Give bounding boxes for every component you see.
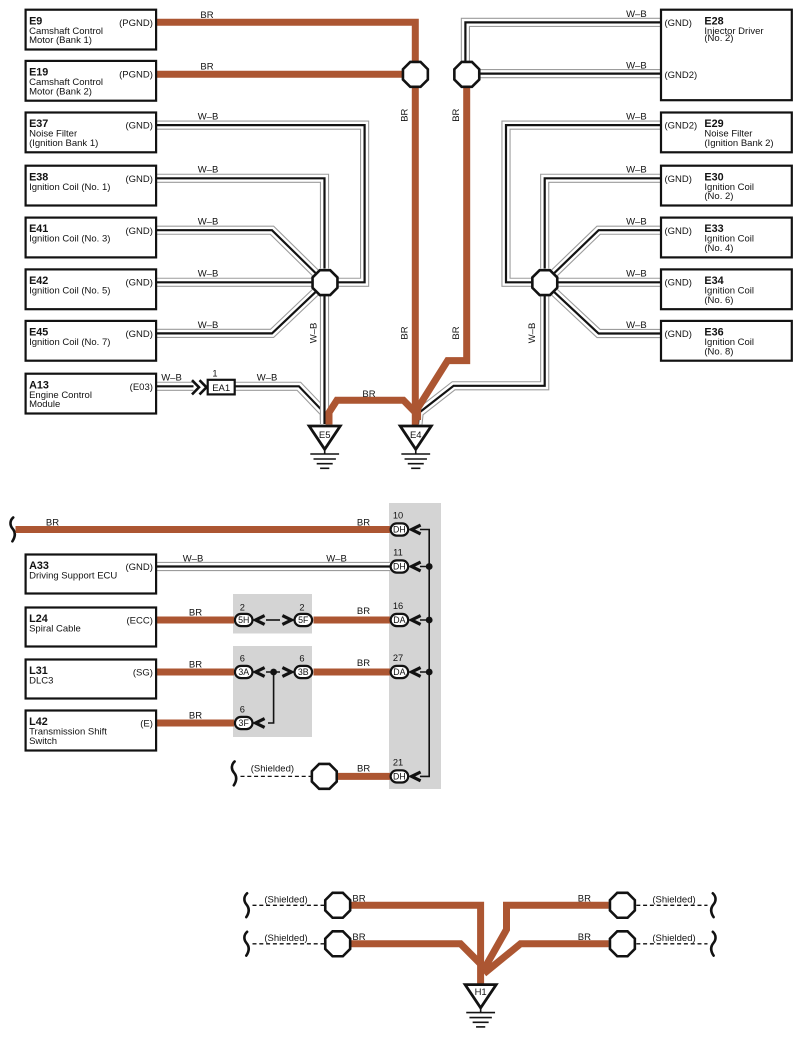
wire BR bottom bottom-left to H1 bbox=[351, 944, 481, 964]
box L24 Spiral Cable bbox=[26, 608, 157, 647]
wire E28 (GND) W-B from junction bbox=[465, 22, 661, 66]
svg-text:W–B: W–B bbox=[626, 165, 647, 176]
svg-text:BR: BR bbox=[451, 108, 462, 121]
box E28 Injector Driver (No. 2) bbox=[661, 10, 792, 101]
svg-text:3B: 3B bbox=[298, 667, 309, 677]
svg-text:(GND): (GND) bbox=[125, 121, 152, 132]
svg-text:Module: Module bbox=[29, 399, 60, 410]
svg-text:10: 10 bbox=[393, 511, 403, 521]
svg-text:BR: BR bbox=[189, 608, 202, 619]
svg-text:Ignition Coil (No. 1): Ignition Coil (No. 1) bbox=[29, 182, 110, 193]
svg-text:(GND): (GND) bbox=[125, 329, 152, 340]
wire BR row 21 bbox=[338, 773, 390, 780]
pin DH 21 bbox=[391, 770, 409, 782]
junction dot pin 16 bbox=[426, 617, 433, 624]
svg-text:DH: DH bbox=[393, 562, 406, 572]
shield squiggle bottom top-right bbox=[711, 893, 715, 917]
svg-text:W–B: W–B bbox=[326, 554, 347, 565]
svg-text:BR: BR bbox=[189, 660, 202, 671]
svg-text:(No. 8): (No. 8) bbox=[704, 346, 733, 357]
svg-text:Ignition Coil (No. 7): Ignition Coil (No. 7) bbox=[29, 337, 110, 348]
shield squiggle bottom top-left bbox=[244, 893, 248, 917]
shield squiggle bottom bottom-right bbox=[711, 932, 715, 956]
svg-text:BR: BR bbox=[352, 893, 365, 904]
ground E5 bbox=[309, 426, 340, 468]
svg-text:11: 11 bbox=[393, 548, 403, 558]
dashed shield wire bottom top-left bbox=[253, 904, 325, 906]
svg-text:E4: E4 bbox=[410, 430, 422, 441]
svg-text:DA: DA bbox=[393, 667, 405, 677]
pin 3A bbox=[235, 666, 253, 678]
svg-text:DA: DA bbox=[393, 615, 405, 625]
svg-text:(Ignition Bank 1): (Ignition Bank 1) bbox=[29, 138, 98, 149]
wire EA1 W-B to E5 bbox=[234, 386, 324, 420]
svg-text:6: 6 bbox=[240, 705, 245, 715]
dashed shield wire bottom bottom-left bbox=[253, 943, 325, 945]
wire E42 W-B to junction bbox=[156, 278, 312, 287]
svg-text:(PGND): (PGND) bbox=[119, 70, 153, 81]
wire E28 (GND2) W-B from junction bbox=[478, 69, 661, 78]
svg-text:BR: BR bbox=[578, 932, 591, 943]
svg-text:27: 27 bbox=[393, 653, 403, 663]
svg-text:DH: DH bbox=[393, 772, 406, 782]
arrow into 5F bbox=[282, 616, 291, 625]
svg-text:Ignition Coil (No. 5): Ignition Coil (No. 5) bbox=[29, 285, 110, 296]
box E33 Ignition Coil (No. 4) bbox=[661, 218, 792, 258]
svg-text:Switch: Switch bbox=[29, 736, 57, 747]
svg-text:W–B: W–B bbox=[183, 554, 204, 565]
wire E38 W-B to junction bbox=[156, 178, 325, 268]
svg-text:BR: BR bbox=[352, 932, 365, 943]
junction octagon J4 (right W-B) bbox=[532, 270, 557, 295]
junction octagon J3 (left W-B) bbox=[313, 270, 338, 295]
svg-text:BR: BR bbox=[357, 518, 370, 529]
svg-text:BR: BR bbox=[200, 10, 213, 21]
dashed shield wire bottom top-right bbox=[636, 904, 707, 906]
ground E4 bbox=[400, 426, 431, 468]
arrow pin 21 bbox=[412, 772, 421, 781]
box E45 Ignition Coil (No. 7) bbox=[26, 321, 157, 361]
dashed shield wire row 21 bbox=[241, 775, 312, 777]
arrow into 5H bbox=[256, 616, 265, 625]
box E37 Noise Filter (Ignition Bank 1) bbox=[26, 113, 157, 153]
wire E33 W-B to junction bbox=[554, 230, 661, 273]
svg-text:(GND): (GND) bbox=[665, 329, 692, 340]
svg-text:(GND): (GND) bbox=[125, 278, 152, 289]
svg-text:BR: BR bbox=[362, 389, 375, 400]
shield octagon bottom bottom-left bbox=[325, 931, 350, 956]
wire E29 W-B to junction bbox=[506, 125, 661, 282]
shield octagon bottom top-right bbox=[610, 893, 635, 918]
arrow into 3B bbox=[282, 668, 291, 677]
svg-text:(No. 4): (No. 4) bbox=[704, 243, 733, 254]
link line 5H-5F bbox=[266, 619, 280, 621]
svg-text:5F: 5F bbox=[298, 615, 309, 625]
arrow pin 16 bbox=[412, 616, 421, 625]
svg-text:3A: 3A bbox=[238, 667, 249, 677]
junction dot pin 11 bbox=[426, 563, 433, 570]
arrow into 3F bbox=[256, 719, 265, 728]
wire 3B BR to DA 27 bbox=[314, 669, 391, 676]
pin 5F bbox=[295, 614, 313, 626]
svg-text:BR: BR bbox=[357, 658, 370, 669]
wire L31 BR to 3A bbox=[156, 669, 234, 676]
wire E45 W-B to junction bbox=[156, 292, 315, 333]
svg-text:(GND): (GND) bbox=[665, 174, 692, 185]
svg-text:W–B: W–B bbox=[198, 165, 219, 176]
box E42 Ignition Coil (No. 5) bbox=[26, 269, 157, 309]
box A33 Driving Support ECU bbox=[26, 555, 157, 594]
box E36 Ignition Coil (No. 8) bbox=[661, 321, 792, 361]
svg-text:(ECC): (ECC) bbox=[127, 616, 153, 627]
svg-text:(GND): (GND) bbox=[125, 174, 152, 185]
svg-text:W–B: W–B bbox=[309, 323, 320, 344]
wire ground E5 BR link to E4 bbox=[329, 400, 416, 424]
pin 3F bbox=[235, 717, 253, 729]
box L42 Transmission Shift Switch bbox=[26, 711, 157, 751]
ground H1 bbox=[465, 985, 496, 1027]
svg-text:6: 6 bbox=[299, 654, 304, 664]
svg-text:BR: BR bbox=[578, 893, 591, 904]
svg-text:W–B: W–B bbox=[626, 112, 647, 123]
svg-text:DH: DH bbox=[393, 525, 406, 535]
wire E34 W-B to junction bbox=[558, 278, 661, 287]
svg-text:(Ignition Bank 2): (Ignition Bank 2) bbox=[704, 138, 773, 149]
svg-text:Ignition Coil (No. 3): Ignition Coil (No. 3) bbox=[29, 234, 110, 245]
shield octagon bottom top-left bbox=[325, 893, 350, 918]
svg-text:W–B: W–B bbox=[198, 217, 219, 228]
svg-text:BR: BR bbox=[357, 764, 370, 775]
svg-text:BR: BR bbox=[46, 518, 59, 529]
junction octagon J1 (BR E9/E19) bbox=[403, 62, 428, 87]
svg-text:(Shielded): (Shielded) bbox=[251, 764, 294, 775]
pin DA 16 bbox=[391, 614, 409, 626]
svg-text:Motor (Bank 2): Motor (Bank 2) bbox=[29, 86, 92, 97]
arrow into 3A bbox=[256, 668, 265, 677]
wire E41 W-B to junction bbox=[156, 230, 315, 273]
svg-text:(GND): (GND) bbox=[665, 18, 692, 29]
pin 3B bbox=[295, 666, 313, 678]
box E41 Ignition Coil (No. 3) bbox=[26, 218, 157, 258]
svg-text:1: 1 bbox=[212, 369, 217, 379]
svg-text:(GND): (GND) bbox=[665, 278, 692, 289]
svg-text:W–B: W–B bbox=[198, 320, 219, 331]
svg-text:(GND): (GND) bbox=[665, 226, 692, 237]
link line 3A-3B with branch to 3F bbox=[266, 672, 280, 723]
svg-text:(E): (E) bbox=[140, 719, 153, 730]
svg-text:6: 6 bbox=[240, 654, 245, 664]
box E9 Camshaft Control Motor (Bank 1) bbox=[26, 10, 157, 50]
arrow pin 27 bbox=[412, 668, 421, 677]
shield continuation squiggle row 21 bbox=[232, 762, 236, 786]
svg-text:Spiral Cable: Spiral Cable bbox=[29, 624, 81, 635]
svg-text:5H: 5H bbox=[238, 615, 249, 625]
connector block gray background (5H/5F) bbox=[233, 594, 312, 634]
wire junction BR to ground E4 right branch bbox=[418, 86, 467, 420]
svg-text:(SG): (SG) bbox=[133, 668, 153, 679]
wire E30 W-B to junction bbox=[545, 178, 661, 268]
svg-text:(Shielded): (Shielded) bbox=[652, 894, 695, 905]
svg-text:H1: H1 bbox=[475, 987, 487, 998]
svg-text:(Shielded): (Shielded) bbox=[264, 933, 307, 944]
box L31 DLC3 bbox=[26, 660, 157, 699]
wire E19 BR bbox=[156, 71, 404, 78]
wire main BR to ground E4 bbox=[412, 86, 419, 426]
svg-text:W–B: W–B bbox=[626, 320, 647, 331]
shield continuation squiggle row 10 bbox=[10, 518, 14, 542]
svg-text:BR: BR bbox=[189, 711, 202, 722]
svg-text:(GND2): (GND2) bbox=[665, 70, 698, 81]
svg-text:(Shielded): (Shielded) bbox=[652, 933, 695, 944]
wire A33 W-B row 11 bbox=[156, 562, 390, 571]
svg-text:E5: E5 bbox=[319, 430, 331, 441]
shield squiggle bottom bottom-left bbox=[244, 932, 248, 956]
junction dot 3A-3B link bbox=[270, 669, 277, 676]
pin DH 10 bbox=[391, 523, 409, 535]
link line pins 10-11-16-27-21 bbox=[420, 530, 429, 777]
dashed shield wire bottom bottom-right bbox=[636, 943, 707, 945]
svg-text:(No. 2): (No. 2) bbox=[704, 191, 733, 202]
box E34 Ignition Coil (No. 6) bbox=[661, 269, 792, 309]
svg-text:W–B: W–B bbox=[257, 373, 278, 384]
svg-text:(No. 6): (No. 6) bbox=[704, 295, 733, 306]
svg-text:(GND2): (GND2) bbox=[665, 121, 698, 132]
svg-text:BR: BR bbox=[400, 108, 411, 121]
wire L42 BR to 3F bbox=[156, 720, 234, 727]
svg-text:W–B: W–B bbox=[161, 373, 182, 384]
wire E36 W-B to junction bbox=[554, 292, 661, 333]
connector EA1 chevron bbox=[192, 380, 207, 394]
svg-text:W–B: W–B bbox=[626, 268, 647, 279]
box E29 Noise Filter (Ignition Bank 2) bbox=[661, 113, 792, 153]
connector EA1 box with pin 1 bbox=[208, 369, 235, 395]
pin DA 27 bbox=[391, 666, 409, 678]
wire junction to ground E4 W-B bbox=[418, 290, 545, 424]
wire A13 W-B to EA1 bbox=[156, 382, 194, 391]
svg-text:BR: BR bbox=[357, 606, 370, 617]
svg-text:W–B: W–B bbox=[626, 61, 647, 72]
svg-text:(PGND): (PGND) bbox=[119, 18, 153, 29]
svg-text:3F: 3F bbox=[239, 718, 250, 728]
connector block gray background (right tall) bbox=[389, 503, 441, 789]
wire BR bottom bottom-right to H1 bbox=[484, 944, 609, 974]
pin 5H bbox=[235, 614, 253, 626]
junction dot pin 27 bbox=[426, 669, 433, 676]
svg-text:EA1: EA1 bbox=[212, 383, 230, 394]
svg-text:16: 16 bbox=[393, 601, 403, 611]
svg-text:W–B: W–B bbox=[527, 323, 538, 344]
connector block gray background (3A/3B/3F) bbox=[233, 646, 312, 737]
wire 5F BR to DA 16 bbox=[314, 617, 391, 624]
wire E37 W-B to junction bbox=[156, 125, 365, 282]
svg-text:21: 21 bbox=[393, 758, 403, 768]
svg-text:(GND): (GND) bbox=[125, 226, 152, 237]
wire E9 BR bbox=[156, 22, 415, 64]
wire BR bottom top-right to H1 bbox=[483, 905, 609, 971]
svg-text:Driving Support ECU: Driving Support ECU bbox=[29, 571, 117, 582]
wire L24 BR to 5H bbox=[156, 617, 234, 624]
wire BR row 10 bbox=[16, 526, 391, 533]
shield octagon bottom bottom-right bbox=[610, 931, 635, 956]
svg-text:(GND): (GND) bbox=[125, 562, 152, 573]
wire junction to ground E5 W-B bbox=[320, 290, 329, 424]
box E19 Camshaft Control Motor (Bank 2) bbox=[26, 61, 157, 101]
svg-text:BR: BR bbox=[451, 326, 462, 339]
junction octagon J2 (E28 shield) bbox=[454, 62, 479, 87]
svg-text:Motor (Bank 1): Motor (Bank 1) bbox=[29, 35, 92, 46]
svg-text:2: 2 bbox=[299, 603, 304, 613]
arrow pin 10 bbox=[412, 525, 421, 534]
svg-text:(Shielded): (Shielded) bbox=[264, 894, 307, 905]
svg-text:BR: BR bbox=[200, 62, 213, 73]
svg-text:W–B: W–B bbox=[626, 9, 647, 20]
box A13 Engine Control Module bbox=[26, 374, 157, 414]
box E38 Ignition Coil (No. 1) bbox=[26, 166, 157, 206]
wire BR bottom top-left to H1 bbox=[351, 905, 481, 984]
arrow pin 11 bbox=[412, 562, 421, 571]
svg-text:2: 2 bbox=[240, 603, 245, 613]
svg-text:BR: BR bbox=[400, 326, 411, 339]
svg-text:(E03): (E03) bbox=[130, 382, 153, 393]
shield octagon row 21 bbox=[312, 764, 337, 789]
pin DH 11 bbox=[391, 560, 409, 572]
svg-text:DLC3: DLC3 bbox=[29, 676, 53, 687]
svg-text:W–B: W–B bbox=[626, 217, 647, 228]
box E30 Ignition Coil (No. 2) bbox=[661, 166, 792, 206]
svg-text:W–B: W–B bbox=[198, 268, 219, 279]
svg-text:W–B: W–B bbox=[198, 112, 219, 123]
svg-text:(No. 2): (No. 2) bbox=[704, 33, 733, 44]
